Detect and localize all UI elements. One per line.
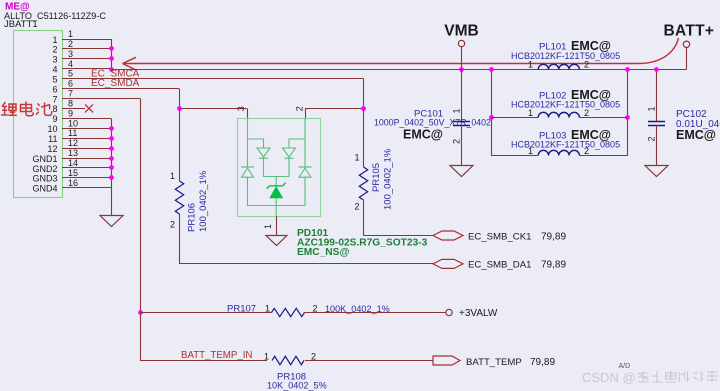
svg-text:1: 1 <box>528 108 533 118</box>
wire PC101 top lead <box>461 70 463 122</box>
svg-text:1: 1 <box>52 35 57 45</box>
label VMB <box>444 23 478 40</box>
svg-text:10: 10 <box>68 118 78 128</box>
junctions pins 10-15 bus <box>109 126 114 180</box>
wire VMB/BATT+ main rail <box>111 48 687 70</box>
svg-text:2: 2 <box>295 106 305 111</box>
diode D-right-inner PD101 <box>283 148 296 158</box>
svg-text:1: 1 <box>452 108 462 113</box>
wire SMDA node to PD101 pin3 <box>179 108 248 110</box>
svg-text:1: 1 <box>264 352 269 362</box>
svg-text:79,89: 79,89 <box>541 260 566 271</box>
svg-text:7: 7 <box>52 94 57 104</box>
svg-text:5: 5 <box>68 69 73 79</box>
svg-text:1000P_0402_50V_X7R_0402: 1000P_0402_50V_X7R_0402 <box>374 118 491 128</box>
svg-text:8: 8 <box>68 98 73 108</box>
wire bus pins 9-16 <box>111 118 113 215</box>
svg-text:3: 3 <box>52 55 57 65</box>
junction pin2 bus <box>109 46 114 51</box>
connector pin name labels <box>32 35 57 194</box>
svg-text:1: 1 <box>354 153 359 163</box>
svg-text:BATT+: BATT+ <box>664 23 715 40</box>
svg-text:6: 6 <box>68 79 73 89</box>
wire PL102/PL103 right feed <box>627 70 629 156</box>
wire EC_SMB_CK1 <box>364 235 434 237</box>
svg-text:3: 3 <box>236 106 246 111</box>
svg-text:79,89: 79,89 <box>530 357 555 368</box>
diode D-left-inner PD101 <box>257 148 270 158</box>
wire PC102 top lead <box>656 70 658 122</box>
terminal +3VALW <box>446 309 452 315</box>
watermark CSDN <box>582 370 718 385</box>
svg-text:100_0402_1%: 100_0402_1% <box>383 148 394 210</box>
junction right feed rail <box>625 67 630 72</box>
svg-text:10: 10 <box>47 124 57 134</box>
svg-text:EMC_NS@: EMC_NS@ <box>297 247 349 258</box>
label BATT_TEMP <box>466 357 522 368</box>
svg-text:15: 15 <box>68 168 78 178</box>
ground connector bus <box>100 216 123 227</box>
label EC_SMB_DA1 <box>468 260 531 271</box>
zener diode PD101 center <box>267 183 286 198</box>
label EC_SMB_CK1 <box>468 231 531 242</box>
terminal BATT+ <box>683 41 689 47</box>
port EC_SMB_DA1 <box>433 259 463 268</box>
label EC_SMCA <box>91 68 140 79</box>
svg-text:79,89: 79,89 <box>541 231 566 242</box>
wire PL102/PL103 left feed <box>491 70 493 156</box>
svg-text:13: 13 <box>68 148 78 158</box>
label ALLTO_C51126-112Z9-C <box>4 11 106 21</box>
svg-text:2: 2 <box>68 39 73 49</box>
wire bus pins 1-4 <box>111 39 113 70</box>
svg-text:GND2: GND2 <box>32 164 57 174</box>
wire VMB drop <box>461 47 463 70</box>
svg-text:EC_SMDA: EC_SMDA <box>91 78 140 89</box>
svg-text:12: 12 <box>68 138 78 148</box>
label lithium battery (Chinese) <box>1 102 52 116</box>
connector JBATT1 designator <box>4 19 38 30</box>
svg-text:6: 6 <box>52 84 57 94</box>
svg-text:BATT_TEMP: BATT_TEMP <box>466 357 522 368</box>
label BATT_TEMP_IN <box>181 350 252 361</box>
svg-text:3: 3 <box>68 49 73 59</box>
svg-text:2: 2 <box>452 139 462 144</box>
junction right feed PL102 <box>625 115 630 120</box>
svg-text:2: 2 <box>584 146 589 156</box>
connector pin stubs with pin numbers <box>62 29 111 188</box>
resistor PR108 <box>264 352 433 391</box>
svg-text:100K_0402_1%: 100K_0402_1% <box>325 304 390 314</box>
svg-text:14: 14 <box>68 158 78 168</box>
junction left feed rail <box>489 67 494 72</box>
diode D-right-outer PD101 <box>299 167 312 177</box>
svg-text:11: 11 <box>68 128 77 138</box>
svg-text:9: 9 <box>52 114 57 124</box>
svg-text:GND3: GND3 <box>32 174 57 184</box>
svg-text:1: 1 <box>528 146 533 156</box>
wire PD101 pin2 drop <box>295 106 306 119</box>
wire PC102 bottom lead <box>656 125 658 166</box>
junction left feed PL102 <box>489 115 494 120</box>
label 79,89 BATT_TEMP <box>530 357 555 368</box>
label +3VALW <box>459 308 498 319</box>
junction pin3 bus <box>109 56 114 61</box>
annotation red arrow BATT+ <box>123 38 679 70</box>
svg-text:1: 1 <box>647 106 657 111</box>
inductor PL101 <box>511 39 620 70</box>
ground PC101 <box>450 166 473 177</box>
svg-text:A/D: A/D <box>619 363 631 370</box>
svg-text:2: 2 <box>354 202 359 212</box>
wire PD101 pin3 drop <box>236 106 248 119</box>
svg-text:11: 11 <box>48 134 57 144</box>
svg-text:4: 4 <box>52 65 57 75</box>
svg-text:4: 4 <box>68 59 73 69</box>
wire EC_SMDA pin6 <box>62 89 180 109</box>
label 79,89 CK1 <box>541 231 566 242</box>
svg-text:2: 2 <box>584 60 589 70</box>
resistor PR105 <box>354 109 393 236</box>
label BATT+ <box>664 23 715 40</box>
svg-text:+3VALW: +3VALW <box>459 308 498 319</box>
port BATT_TEMP <box>433 356 460 365</box>
svg-text:GND1: GND1 <box>32 154 57 164</box>
junction SMDA node <box>177 106 182 111</box>
label ME@ <box>5 1 30 12</box>
svg-text:JBATT1: JBATT1 <box>4 19 38 30</box>
wire EC_SMCA pin5 <box>62 79 364 109</box>
svg-text:16: 16 <box>68 178 78 188</box>
ground PD101 <box>266 236 287 246</box>
junction SMCA node <box>361 106 366 111</box>
svg-text:BATT_TEMP_IN: BATT_TEMP_IN <box>181 350 252 361</box>
junction PR107 branch <box>138 310 143 315</box>
wire PC101 bottom lead <box>461 125 463 165</box>
svg-text:10K_0402_5%: 10K_0402_5% <box>267 381 327 391</box>
label A/D <box>619 363 631 370</box>
svg-text:2: 2 <box>52 45 57 55</box>
label 79,89 DA1 <box>541 260 566 271</box>
svg-text:GND4: GND4 <box>32 184 57 194</box>
svg-text:VMB: VMB <box>444 23 478 40</box>
connector JBATT1 body <box>14 31 63 198</box>
svg-text:CSDN @: CSDN @ <box>582 370 636 385</box>
svg-text:1: 1 <box>265 304 270 314</box>
junction VMB rail <box>459 67 464 72</box>
svg-text:EC_SMB_DA1: EC_SMB_DA1 <box>468 260 531 271</box>
svg-text:8: 8 <box>52 104 57 114</box>
svg-text:2: 2 <box>170 220 175 230</box>
svg-text:1: 1 <box>528 60 533 70</box>
svg-text:12: 12 <box>47 144 57 154</box>
terminal VMB <box>458 40 464 46</box>
svg-text:1: 1 <box>170 171 175 181</box>
svg-text:2: 2 <box>313 304 318 314</box>
svg-text:2: 2 <box>311 352 316 362</box>
svg-text:EMC@: EMC@ <box>676 128 716 142</box>
inductor PL102 <box>491 88 627 118</box>
svg-text:PR106: PR106 <box>187 203 198 232</box>
wire PD101 pin2 to SMCA node <box>305 108 364 110</box>
label PD101 <box>297 228 428 258</box>
diode array PD101 body <box>238 119 321 217</box>
junction pin4 bus <box>109 67 114 72</box>
capacitor PC102 <box>647 106 720 142</box>
svg-text:1: 1 <box>68 29 73 39</box>
port EC_SMB_CK1 <box>433 231 463 240</box>
resistor PR107 <box>140 304 446 317</box>
capacitor PC101 <box>374 108 491 144</box>
svg-text:2: 2 <box>584 108 589 118</box>
junction PC102 rail <box>654 67 659 72</box>
inductor PL103 <box>491 128 627 156</box>
svg-text:PR107: PR107 <box>227 304 256 315</box>
wire pin7 BATT_TEMP_IN <box>62 99 267 361</box>
svg-text:100_0402_1%: 100_0402_1% <box>198 170 209 232</box>
svg-text:2: 2 <box>647 136 657 141</box>
svg-text:PR105: PR105 <box>371 163 382 192</box>
label EC_SMDA <box>91 78 140 89</box>
no-connect X pin 8 <box>85 104 93 112</box>
ground PC102 <box>645 166 668 177</box>
wire PD101 pin1 to ground <box>263 216 277 235</box>
PD101 internal wiring <box>248 119 306 217</box>
resistor PR106 <box>170 109 209 264</box>
diode D-left-outer PD101 <box>241 167 254 177</box>
svg-text:EC_SMB_CK1: EC_SMB_CK1 <box>468 231 531 242</box>
svg-text:9: 9 <box>68 108 73 118</box>
svg-text:EMC@: EMC@ <box>403 128 443 142</box>
svg-text:5: 5 <box>52 74 57 84</box>
svg-text:7: 7 <box>68 89 73 99</box>
svg-text:1: 1 <box>263 224 273 229</box>
wire EC_SMB_DA1 <box>179 263 433 265</box>
